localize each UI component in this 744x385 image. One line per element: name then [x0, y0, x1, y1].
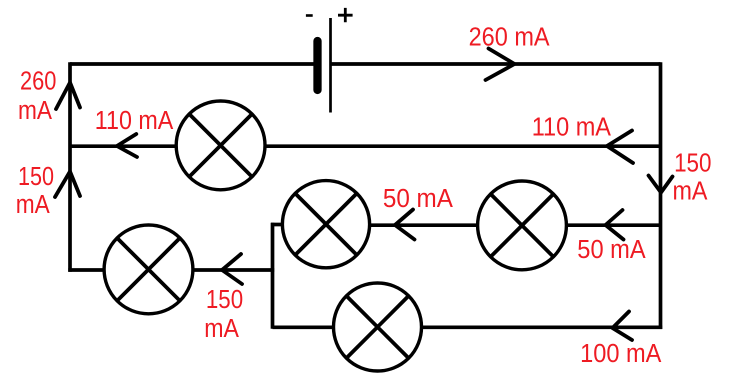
svg-text:260 mA: 260 mA: [469, 23, 550, 51]
arrow: 110 mA left near left bus: [117, 134, 137, 157]
svg-text:150: 150: [206, 286, 243, 314]
svg-text:50 mA: 50 mA: [577, 236, 645, 264]
svg-text:mA: mA: [16, 191, 50, 219]
svg-text:mA: mA: [18, 97, 52, 125]
svg-text:150: 150: [18, 163, 54, 191]
arrow: 260 mA up on left bus: [56, 83, 80, 110]
arrow: 100 mA left on bottom wire: [613, 312, 633, 341]
wire: row3 segment right bus to lamp L3: [566, 223, 661, 227]
arrow: 260 mA right on top wire: [486, 49, 515, 81]
svg-text:mA: mA: [204, 315, 239, 343]
svg-text:50 mA: 50 mA: [383, 185, 453, 213]
svg-text:110 mA: 110 mA: [532, 114, 611, 142]
lamp L5 (bottom-left, 150 mA): [104, 225, 193, 314]
lamp L4 (bottom, 100 mA): [334, 283, 422, 371]
wire: left vertical bus: [68, 62, 72, 271]
wire: junction riser vertical: [271, 223, 275, 329]
svg-text:100 mA: 100 mA: [580, 340, 661, 368]
svg-text:mA: mA: [673, 178, 708, 206]
arrow: 50 mA left between lamps L2 and L3: [395, 210, 415, 240]
arrow: 150 mA left on branch wire: [222, 254, 242, 284]
wire: row2 right segment (right bus to lamp L1): [264, 144, 661, 148]
wire: stub from junction riser to lamp L2: [271, 223, 281, 227]
arrow: 50 mA left near right bus: [606, 210, 624, 240]
battery B1 negative plate (short thick bar): [313, 41, 321, 90]
lamp L1 (110 mA branch): [176, 101, 265, 190]
lamp L2 (row3 middle): [282, 181, 369, 268]
wire: top-left from battery negative plate to top-left corner: [70, 62, 314, 66]
arrow: 150 mA down on right bus: [649, 176, 673, 193]
wire: top-right from battery positive plate to top-right corner: [332, 62, 661, 66]
wire: bottom segment junction riser to lamp L4: [273, 325, 335, 329]
wire: bottom segment lamp L4 to bottom-right corner: [421, 325, 663, 329]
wire: right vertical bus: [659, 62, 663, 329]
svg-text:110 mA: 110 mA: [95, 107, 174, 135]
wire: row3 segment between lamp L2 and lamp L3: [370, 223, 478, 227]
lamp L3 (row3 right): [478, 181, 567, 270]
wire: bottom-left corner to lamp L5: [68, 268, 105, 272]
battery minus label: [306, 14, 313, 17]
battery B1 positive plate (long thin bar): [329, 18, 332, 113]
wire: 150 mA branch (lamp L5 to junction riser): [192, 268, 274, 272]
svg-text:150: 150: [674, 150, 711, 178]
svg-text:260: 260: [20, 67, 56, 95]
battery plus label: [338, 8, 353, 22]
wire: row2 left segment (lamp L1 to left bus): [69, 144, 178, 148]
arrow: 110 mA left near right bus: [607, 131, 633, 164]
arrow: 150 mA up on left bus: [55, 172, 80, 198]
